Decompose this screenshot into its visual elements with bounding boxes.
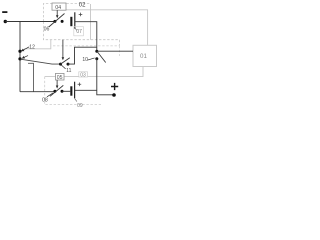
svg-text:03: 03 — [80, 73, 86, 79]
svg-text:02: 02 — [79, 3, 86, 9]
battery 09 short thick plate — [70, 86, 72, 95]
switch 11 (middle) — [59, 58, 70, 69]
wire control line from box 04 to box 01 (light) — [66, 10, 148, 45]
svg-text:09: 09 — [77, 103, 83, 109]
arrow into switch 11 from above — [62, 40, 64, 58]
wire from box 05 along bottom box top edge to box 01 bottom (light) — [45, 67, 143, 77]
dashed enclosure box (bottom) — [45, 77, 101, 105]
label box 03 on wire — [79, 72, 88, 79]
label 07 with hook leader — [74, 27, 84, 36]
wire battery 07 to switch 10 (elbow down) — [75, 22, 97, 52]
switch 08 (bottom) — [50, 85, 64, 96]
svg-text:08: 08 — [42, 97, 48, 103]
svg-text:12: 12 — [29, 44, 35, 50]
plus mark at battery 09 — [78, 83, 82, 87]
label 10 with leader — [82, 57, 94, 63]
junction node lower on rail — [18, 57, 21, 60]
wire battery 09 to junction — [75, 89, 97, 91]
wire sloped from rail node to switch 11 — [21, 59, 61, 64]
node 12 leaders — [21, 44, 35, 58]
wire switch 11 up and right to switch 10 column — [68, 47, 97, 64]
svg-text:10: 10 — [82, 57, 88, 63]
box 01 — [133, 45, 157, 66]
switch 06 (top) — [49, 14, 65, 28]
svg-text:04: 04 — [55, 5, 61, 11]
wire light drop from 04 line down at x=90.5 — [90, 4, 92, 40]
wire left rail down — [19, 22, 21, 92]
wire negative terminal to switch 06 — [5, 21, 55, 23]
bottom branch: wire rail corner to switch 08 — [20, 91, 55, 93]
svg-text:01: 01 — [140, 53, 147, 60]
wire switch 10 down to positive terminal — [97, 59, 113, 95]
svg-text:06: 06 — [44, 27, 50, 33]
battery 09 long plate — [74, 82, 76, 99]
label 09 with hook leader — [75, 99, 83, 110]
dashed enclosure box (middle) — [53, 46, 119, 56]
switch 10 — [95, 50, 105, 63]
battery 07 long plate — [74, 12, 76, 29]
wire switch 08 to battery 09 — [62, 90, 70, 92]
plus sign terminal — [111, 83, 118, 90]
positive terminal node — [112, 93, 116, 97]
wire switch 10 to box 01 — [97, 50, 133, 52]
label 08 with leader — [42, 93, 53, 103]
node at negative terminal — [4, 20, 7, 23]
svg-text:07: 07 — [76, 29, 82, 35]
plus mark at battery 07 — [79, 13, 83, 17]
wire branch down to bottom switch — [28, 63, 34, 91]
dashed enclosure box 02 (top) — [43, 4, 119, 46]
negative terminal — [2, 11, 7, 13]
svg-text:11: 11 — [66, 68, 71, 74]
label box 04 with arrow to switch — [52, 3, 66, 18]
wire light connector near node 12 — [24, 40, 51, 49]
label box 05 with arrow to switch 08 — [56, 73, 65, 88]
svg-text:05: 05 — [57, 75, 63, 81]
battery 07 (top): short thick plate — [70, 17, 72, 26]
junction node upper on rail — [18, 50, 21, 53]
